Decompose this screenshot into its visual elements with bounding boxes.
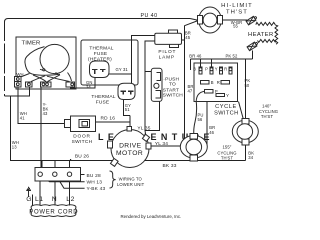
svg-text:N: N <box>52 196 57 203</box>
svg-text:THERMAL: THERMAL <box>91 94 115 100</box>
svg-text:(HEATER): (HEATER) <box>88 56 112 62</box>
svg-text:LAMP: LAMP <box>159 54 175 60</box>
svg-text:56: 56 <box>198 117 203 122</box>
svg-text:WIRING TO: WIRING TO <box>119 177 143 182</box>
svg-text:Y-BK 43: Y-BK 43 <box>87 186 106 192</box>
svg-text:51: 51 <box>125 107 130 112</box>
svg-text:24: 24 <box>86 84 91 89</box>
svg-text:TH'ST: TH'ST <box>221 156 234 161</box>
svg-text:13: 13 <box>12 145 17 150</box>
svg-text:Y: Y <box>226 93 229 98</box>
svg-text:47: 47 <box>188 89 193 94</box>
svg-text:·PUSH: ·PUSH <box>163 76 179 82</box>
svg-text:L1: L1 <box>35 196 44 203</box>
svg-text:HI-LIMIT: HI-LIMIT <box>221 3 253 9</box>
svg-text:SWITCH: SWITCH <box>214 111 238 117</box>
svg-text:BR 46: BR 46 <box>189 53 202 58</box>
svg-text:PK 52: PK 52 <box>226 53 238 58</box>
svg-text:Y: Y <box>215 67 218 72</box>
svg-text:PILOT: PILOT <box>158 49 176 55</box>
svg-text:L2: L2 <box>66 196 75 203</box>
svg-text:WH: WH <box>17 72 24 77</box>
svg-text:P: P <box>205 67 208 72</box>
svg-text:B: B <box>211 80 214 85</box>
svg-text:45: 45 <box>185 35 190 40</box>
svg-text:FUSE: FUSE <box>96 99 110 105</box>
svg-text:BK 33: BK 33 <box>163 163 177 169</box>
svg-text:DRIVE: DRIVE <box>119 142 142 149</box>
svg-text:P: P <box>215 89 218 94</box>
svg-text:SWITCH: SWITCH <box>72 139 93 145</box>
svg-text:BU 26: BU 26 <box>75 154 89 160</box>
svg-text:R: R <box>224 67 227 72</box>
svg-text:41: 41 <box>20 116 25 121</box>
svg-text:50: 50 <box>245 83 250 88</box>
svg-text:MOTOR: MOTOR <box>116 150 143 157</box>
svg-text:FUSE: FUSE <box>94 51 108 57</box>
svg-text:TO: TO <box>169 82 176 88</box>
svg-text:TIMER: TIMER <box>22 41 41 47</box>
svg-text:155°: 155° <box>222 145 231 150</box>
svg-text:B: B <box>193 67 196 72</box>
svg-text:SWITCH: SWITCH <box>163 92 183 98</box>
svg-text:46: 46 <box>209 130 214 135</box>
svg-text:TH'ST: TH'ST <box>226 9 248 15</box>
svg-text:WH 13: WH 13 <box>87 180 103 186</box>
svg-text:TH'ST: TH'ST <box>261 114 274 119</box>
svg-text:GY 31: GY 31 <box>116 67 129 72</box>
svg-text:R: R <box>217 80 220 85</box>
svg-text:LOWER UNIT: LOWER UNIT <box>117 182 145 187</box>
svg-text:CYCLE: CYCLE <box>215 104 237 110</box>
svg-text:YL 35: YL 35 <box>137 125 150 131</box>
svg-text:BU 28: BU 28 <box>87 173 101 179</box>
svg-text:140°: 140° <box>262 103 271 108</box>
svg-text:PU 40: PU 40 <box>141 13 158 19</box>
svg-text:THERMAL: THERMAL <box>89 46 113 52</box>
svg-text:43: 43 <box>43 111 48 116</box>
svg-text:G: G <box>26 196 32 203</box>
svg-text:RD 16: RD 16 <box>101 115 116 121</box>
svg-text:HEATER: HEATER <box>248 32 274 38</box>
svg-text:POWER CORD: POWER CORD <box>29 210 78 216</box>
svg-text:Rendered by LeadVenture, Inc.: Rendered by LeadVenture, Inc. <box>121 214 182 219</box>
svg-text:YL 34: YL 34 <box>155 141 168 147</box>
svg-text:55: 55 <box>233 24 238 29</box>
svg-text:34: 34 <box>248 155 253 160</box>
svg-text:DOOR: DOOR <box>73 133 91 139</box>
